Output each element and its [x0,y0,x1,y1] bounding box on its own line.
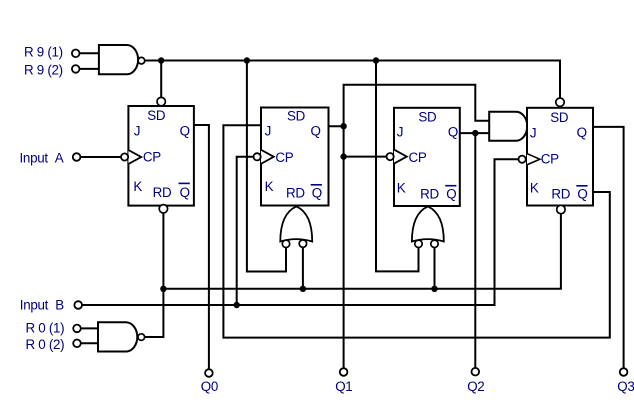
wire R9(1) input stub [80,52,99,54]
svg-text:CP: CP [275,150,293,165]
flip-flop FF1 RD bubble [159,205,167,213]
svg-text:RD: RD [153,185,172,200]
junction R0 rail at G4 branch [300,286,306,292]
svg-text:Q: Q [448,124,458,139]
svg-text:R 9 (2): R 9 (2) [24,62,63,77]
flip-flop FF1 [128,106,194,206]
terminal R9(2) [72,65,80,73]
terminal Q0 [205,369,213,377]
wire FF1 Q to Q0 terminal [194,125,209,369]
wire node Q1 vertical, up and over to AND G3 top input, down to Q1 terminal [344,85,490,369]
flip-flop FF3 [394,108,460,206]
wire FF4 Q to Q3 terminal [593,127,624,368]
junction R0 rail at FF1 RD riser [160,286,166,292]
wire branch Input B rail to FF2 CP [237,157,254,305]
svg-text:R 9 (1): R 9 (1) [24,45,63,60]
terminal R0(2) [73,340,81,348]
svg-text:SD: SD [287,109,306,124]
FF3 Q-bar overline [446,185,456,187]
wire node Q2 drop to Q2 terminal [474,133,476,368]
svg-text:Q: Q [180,185,190,200]
svg-text:Q0: Q0 [201,379,218,394]
svg-text:Q: Q [446,186,456,201]
FF1 CP clock triangle [128,150,141,164]
svg-text:B: B [55,298,64,313]
svg-text:CP: CP [143,149,161,164]
flip-flop FF2 CP bubble [254,153,261,160]
svg-text:J: J [397,125,403,140]
NAND gate G2 output bubble [138,334,145,341]
junction on R9 rail at G4 branch [244,57,250,63]
terminal R0(1) [73,325,81,333]
wire branch R9 rail to gate G4 left input [247,61,286,272]
flip-flop FF1 body box [128,106,194,206]
flip-flop FF4 SD bubble [556,98,564,106]
svg-text:K: K [530,180,539,195]
flip-flop FF3 CP bubble [387,153,394,160]
flip-flop FF2 body box [261,108,329,206]
svg-text:SD: SD [550,110,569,125]
junction node Q2 at AND input [472,130,478,136]
label Input B [20,298,64,313]
svg-text:K: K [397,181,406,196]
wire node Q1 to FF3 CP [344,156,387,158]
wire Input B rail to FF4 CP [82,159,518,305]
svg-text:RD: RD [420,186,439,201]
flip-flop FF1 SD bubble [157,97,165,105]
wire R9(2) input stub [80,68,99,70]
gate G5 body (FF3 RD gate) [412,206,444,241]
svg-text:R 0 (2): R 0 (2) [26,337,65,352]
terminal Q1 [340,368,348,376]
svg-text:Input: Input [20,298,49,313]
terminal Q3 [620,368,628,376]
gate G5 right input bubble [431,240,438,247]
gate G5 left input bubble [415,240,422,247]
wire branch R0 rail to gate G5 right input [434,247,436,288]
wire net Q3-bar from FF4 Qbar to FF2 J [223,125,609,337]
wire FF3 Q to AND G3 bottom input [460,132,489,134]
junction node Q1 at FF2 Q [340,123,346,129]
svg-text:Input: Input [20,150,49,165]
svg-text:RD: RD [551,187,570,202]
gate G4 right input bubble [299,240,306,247]
junction on R9 rail at FF1 SD branch [158,57,164,63]
gate G4 body (FF2 RD gate) [280,206,312,241]
FF2 Q-bar overline [312,184,322,186]
wire R0(2) input stub [81,342,98,344]
wire Input A to FF1 CP [80,156,121,158]
wire R0 reset rail to FF4 RD [163,214,561,289]
junction node Q1 at FF3 CP [340,153,346,159]
flip-flop FF1 CP bubble [121,153,128,160]
junction Input B rail at FF2 CP branch [234,302,240,308]
svg-text:K: K [265,179,274,194]
junction on R9 rail at G5 branch [373,57,379,63]
wire branch R9 rail to gate G5 left input [376,61,419,272]
flip-flop FF2 [261,108,329,206]
flip-flop FF4 [527,108,593,206]
wire branch R9 rail to FF1 SD [160,61,162,98]
wire NAND G2 output up to FF1 RD [145,213,163,337]
AND gate G3 body [489,112,527,141]
wire FF2 Q to node Q1 [329,125,344,127]
svg-text:Q3: Q3 [617,379,634,394]
terminal Input B [74,301,82,309]
flip-flop FF3 body box [394,108,460,206]
wire R0(1) input stub [81,327,98,329]
flip-flop FF4 CP bubble [519,156,526,163]
svg-text:SD: SD [418,109,437,124]
svg-text:SD: SD [147,108,166,123]
svg-text:Q2: Q2 [467,379,484,394]
terminal Input A [73,153,81,161]
svg-text:Q1: Q1 [335,379,352,394]
label Input A [20,150,64,165]
gate G4 left input bubble [282,240,289,247]
NAND gate G2 (R0) body [98,322,137,351]
terminal Q2 [472,368,480,376]
svg-text:CP: CP [541,151,559,166]
flip-flop FF4 body box [527,108,593,206]
svg-text:Q: Q [577,187,587,202]
svg-text:K: K [133,179,142,194]
svg-text:R 0 (1): R 0 (1) [26,321,65,336]
terminal R9(1) [72,50,80,58]
svg-text:Q: Q [577,125,587,140]
wire R9 set rail from NAND G1 output to FF4 SD [145,61,560,99]
FF4 CP clock triangle [527,154,540,165]
NAND gate G1 output bubble [138,57,145,64]
svg-text:CP: CP [409,150,427,165]
svg-text:J: J [134,123,140,138]
svg-text:J: J [530,125,536,140]
NAND gate G1 (R9) body [99,45,138,74]
FF1 Q-bar overline [179,182,189,184]
wire branch R0 rail to gate G4 right input [302,247,304,288]
flip-flop FF4 RD bubble [557,205,565,213]
FF4 Q-bar overline [577,185,587,187]
FF3 CP clock triangle [394,150,407,164]
FF2 CP clock triangle [261,150,274,164]
svg-text:A: A [55,150,64,165]
svg-text:Q: Q [180,123,190,138]
junction R0 rail at G5 branch [431,286,437,292]
svg-text:Q: Q [311,123,321,138]
svg-text:RD: RD [286,185,305,200]
svg-text:J: J [265,123,271,138]
svg-text:Q: Q [312,185,322,200]
